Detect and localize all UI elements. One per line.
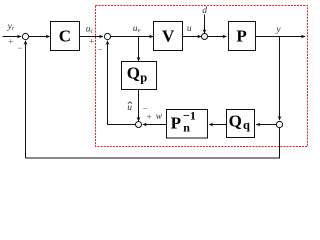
wire C to J2: [80, 36, 104, 38]
block Qp: [122, 62, 157, 90]
wire y branch down to J5: [279, 37, 281, 121]
svg-text:C: C: [59, 26, 71, 45]
junction J5: [276, 121, 282, 127]
svg-text:−: −: [98, 44, 103, 54]
svg-text:q: q: [243, 118, 250, 132]
block C: [51, 22, 80, 51]
block Qq: [227, 110, 255, 138]
svg-text:+: +: [147, 112, 152, 122]
wire Qq to Pn: [209, 124, 226, 126]
wire J1 to C: [29, 36, 50, 38]
wire P output y: [256, 36, 306, 38]
wire yr input: [3, 36, 22, 38]
svg-text:P: P: [171, 114, 181, 133]
svg-text:Q: Q: [127, 63, 140, 82]
junction J4: [136, 122, 142, 128]
svg-text:p: p: [140, 70, 147, 84]
wire branch uv down to Qp: [138, 37, 140, 61]
wire Pn to J4: [143, 124, 166, 126]
block Pn inverse: [167, 108, 208, 138]
wire bottom feedback up to J1: [25, 41, 27, 158]
node uhat label: [127, 102, 132, 113]
wire J3 to P: [208, 36, 227, 38]
svg-text:Q: Q: [229, 111, 242, 130]
svg-text:n: n: [183, 120, 190, 134]
svg-text:P: P: [236, 26, 246, 45]
junction J2: [104, 33, 110, 39]
svg-text:+: +: [8, 37, 13, 47]
svg-text:V: V: [162, 26, 175, 45]
junction J3: [202, 34, 208, 40]
svg-text:w: w: [156, 112, 163, 122]
wire J2 to V: [111, 36, 154, 38]
svg-text:−: −: [17, 43, 22, 53]
wire arrow into J2 bottom: [107, 41, 109, 45]
block V: [154, 22, 183, 51]
wire Qp to J4: [138, 90, 140, 122]
wire J4 output left and up to J2: [108, 44, 136, 125]
svg-text:u: u: [127, 103, 132, 113]
wire J5 down to bottom feedback: [26, 128, 280, 158]
wire d to J3: [204, 15, 206, 34]
wire J5 to Qq: [256, 124, 276, 126]
block P: [229, 22, 256, 51]
svg-text:u: u: [187, 24, 192, 34]
wire V to J3: [183, 36, 202, 38]
junction J1: [22, 33, 28, 39]
dashed boundary of inner loop: [96, 6, 308, 147]
svg-text:+: +: [89, 37, 94, 47]
svg-text:y: y: [275, 25, 281, 35]
